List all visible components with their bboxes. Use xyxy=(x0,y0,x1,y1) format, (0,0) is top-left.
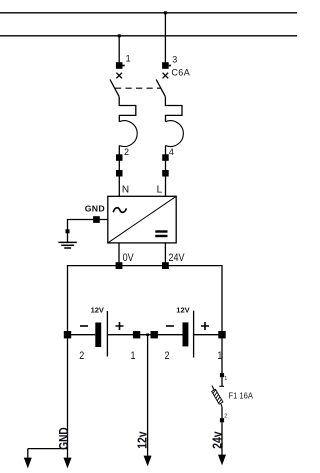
svg-text:3: 3 xyxy=(172,54,177,64)
svg-text:24V: 24V xyxy=(169,252,185,264)
svg-text:C6A: C6A xyxy=(171,67,190,77)
svg-text:1: 1 xyxy=(224,376,227,382)
svg-text:2: 2 xyxy=(165,350,170,362)
svg-text:12V: 12V xyxy=(91,306,104,315)
svg-text:2: 2 xyxy=(79,350,84,362)
svg-text:12v: 12v xyxy=(136,431,150,449)
svg-text:2: 2 xyxy=(224,414,227,420)
svg-text:F1 16A: F1 16A xyxy=(229,391,254,401)
svg-text:1: 1 xyxy=(131,350,136,362)
svg-text:N: N xyxy=(122,184,129,195)
svg-text:GND: GND xyxy=(57,427,71,450)
svg-text:1: 1 xyxy=(217,350,222,362)
svg-text:2: 2 xyxy=(124,147,129,157)
svg-text:0V: 0V xyxy=(123,252,134,264)
svg-text:24v: 24v xyxy=(210,431,224,449)
svg-text:GND: GND xyxy=(85,203,105,213)
svg-text:1: 1 xyxy=(126,54,131,64)
svg-text:4: 4 xyxy=(169,147,174,157)
svg-text:L: L xyxy=(157,184,163,195)
svg-text:12V: 12V xyxy=(176,306,189,315)
